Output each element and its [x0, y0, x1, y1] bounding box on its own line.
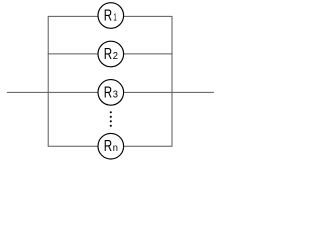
- svg-text:2: 2: [113, 51, 119, 62]
- wire: branch n left: [48, 145, 98, 147]
- resistor R1: [98, 3, 124, 29]
- wire: branch 1 right: [123, 15, 172, 17]
- svg-text:1: 1: [113, 13, 117, 24]
- ellipsis dots between R3 and Rn: [110, 111, 112, 127]
- svg-text:3: 3: [113, 89, 119, 100]
- wire: R3 to right terminal: [123, 91, 213, 93]
- svg-text:R: R: [104, 46, 112, 63]
- wire: branch 2 left: [48, 53, 98, 55]
- resistor R2: [98, 41, 124, 67]
- svg-text:n: n: [113, 143, 118, 154]
- wire: right bus bar: [171, 16, 173, 146]
- svg-text:R: R: [104, 7, 112, 24]
- wire: left bus bar: [47, 16, 49, 146]
- svg-text:R: R: [104, 138, 112, 155]
- wire: branch n right: [123, 145, 172, 147]
- resistor Rn: [98, 133, 124, 159]
- wire: main line left terminal to R3: [7, 91, 98, 93]
- wire: branch 2 right: [123, 53, 172, 55]
- resistor R3: [98, 80, 124, 106]
- svg-text:R: R: [104, 84, 112, 101]
- wire: branch 1 left: [48, 15, 98, 17]
